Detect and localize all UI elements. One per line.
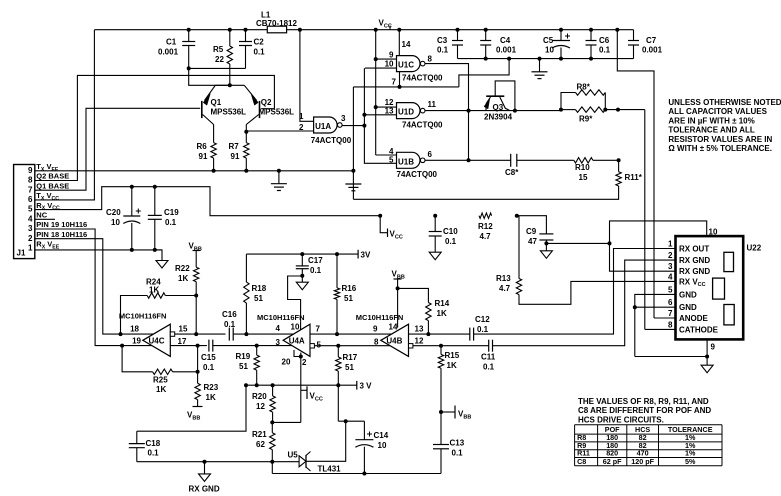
power VBB below R23	[187, 407, 203, 422]
svg-text:91: 91	[231, 152, 240, 161]
svg-text:C2: C2	[254, 38, 265, 47]
wire U5 cathode up	[306, 419, 348, 461]
resistor R13	[496, 216, 522, 295]
wire TX VEE rail	[35, 170, 354, 172]
capacitor C20	[106, 185, 141, 252]
svg-text:3: 3	[668, 262, 673, 271]
svg-text:C19: C19	[164, 208, 179, 217]
wire J1 pin 8 Q2 base	[35, 75, 275, 180]
wire VCC top rail right of L1	[287, 29, 634, 31]
svg-text:C16: C16	[222, 310, 237, 319]
wire U22 pin 8 cathode	[645, 328, 676, 330]
wire J1 pin 6 TX VCC riser	[35, 30, 95, 200]
svg-text:1K: 1K	[178, 274, 188, 283]
svg-text:R6: R6	[197, 142, 208, 151]
wire U1A output pin 3	[343, 124, 367, 128]
svg-text:Q3: Q3	[493, 103, 504, 112]
svg-text:6: 6	[28, 195, 33, 204]
svg-text:8: 8	[668, 320, 673, 329]
wire U4B pin 12 line	[413, 345, 489, 347]
resistor R15	[438, 344, 459, 445]
inductor L1	[256, 11, 297, 33]
wire U1C output pin 8	[425, 64, 468, 161]
svg-text:0.001: 0.001	[158, 48, 179, 57]
svg-text:7: 7	[28, 185, 33, 194]
svg-text:R8*: R8*	[577, 83, 591, 92]
svg-text:1K: 1K	[437, 309, 447, 318]
wire VCC top rail left of L1	[94, 29, 267, 31]
svg-text:R10: R10	[575, 163, 590, 172]
power VCC tick middle	[378, 214, 403, 241]
svg-text:74ACTQ00: 74ACTQ00	[397, 170, 438, 179]
svg-text:RX OUT: RX OUT	[679, 245, 709, 254]
svg-text:U22: U22	[747, 244, 762, 253]
resistor R10	[574, 158, 621, 182]
svg-text:10: 10	[545, 46, 554, 55]
wire R22 R24 to U4C pin 15	[194, 296, 198, 337]
svg-text:GND: GND	[679, 290, 697, 299]
svg-text:C12: C12	[475, 315, 490, 324]
svg-text:62 pF: 62 pF	[603, 457, 622, 466]
resistor R9	[559, 107, 607, 124]
svg-text:8: 8	[428, 55, 433, 64]
wire U4B pin 13 line	[409, 333, 470, 335]
svg-text:19: 19	[132, 337, 141, 346]
wire U4A pin 2 20 to VCC	[294, 350, 307, 422]
svg-text:C5: C5	[543, 36, 554, 45]
wire U4A pin 5 to U4B pin 8	[314, 345, 389, 347]
wire R13 to U22 pin 4	[519, 281, 676, 304]
svg-text:3: 3	[28, 224, 33, 233]
svg-text:Q1: Q1	[211, 98, 222, 107]
svg-text:PIN 18 10H116: PIN 18 10H116	[36, 230, 87, 239]
svg-text:RX GND: RX GND	[189, 485, 220, 494]
svg-text:ARE IN µF WITH ± 10%: ARE IN µF WITH ± 10%	[668, 116, 754, 125]
ground on V1	[345, 183, 361, 185]
capacitor C6	[586, 28, 611, 61]
svg-text:22: 22	[215, 55, 224, 64]
svg-text:C20: C20	[106, 208, 121, 217]
svg-text:2: 2	[302, 358, 307, 367]
svg-text:0.1: 0.1	[483, 363, 495, 372]
svg-text:9: 9	[28, 166, 33, 175]
wire U1C pin 7 ground	[353, 57, 511, 89]
svg-text:0.1: 0.1	[437, 46, 449, 55]
svg-text:U5: U5	[288, 451, 299, 460]
wire bottom rail to C13	[272, 462, 441, 474]
svg-text:C11: C11	[481, 353, 496, 362]
capacitor C16	[222, 310, 237, 341]
transistor Q2	[244, 85, 294, 124]
svg-text:C1: C1	[166, 38, 177, 47]
amplifier U4C	[119, 312, 188, 357]
ground under Q1 Q2	[271, 169, 287, 191]
resistor R21	[252, 422, 275, 461]
svg-text:R23: R23	[204, 383, 219, 392]
svg-text:51: 51	[344, 294, 353, 303]
svg-text:10: 10	[709, 228, 718, 237]
svg-text:0.1: 0.1	[203, 363, 215, 372]
svg-text:11: 11	[428, 100, 437, 109]
svg-text:R13: R13	[496, 274, 511, 283]
ground arrow C17	[296, 276, 308, 290]
svg-text:C10: C10	[443, 227, 458, 236]
svg-text:R11*: R11*	[625, 173, 643, 182]
svg-text:4: 4	[28, 214, 33, 223]
resistor R25 feedback	[122, 346, 198, 394]
power 3V tick bottom	[357, 381, 372, 391]
svg-text:0.1: 0.1	[452, 449, 464, 458]
svg-text:1K: 1K	[206, 393, 216, 402]
svg-text:2: 2	[28, 234, 33, 243]
svg-text:0.001: 0.001	[496, 46, 517, 55]
svg-text:Ω WITH ± 5% TOLERANCE.: Ω WITH ± 5% TOLERANCE.	[668, 144, 772, 153]
svg-text:R5: R5	[213, 45, 224, 54]
wire J1 pin 5 RX VCC	[35, 187, 380, 216]
svg-text:15: 15	[579, 173, 588, 182]
capacitor C13	[433, 439, 465, 474]
svg-text:C14: C14	[374, 431, 389, 440]
svg-text:0.1: 0.1	[477, 325, 489, 334]
resistor R5	[213, 28, 233, 86]
wire C17 to U4A pin 10	[288, 276, 303, 321]
svg-text:14: 14	[389, 323, 398, 332]
svg-text:0.1: 0.1	[310, 266, 322, 275]
wire U4C pin 18 input	[119, 332, 154, 336]
capacitor C15	[201, 340, 216, 372]
svg-text:MPS536L: MPS536L	[211, 108, 247, 117]
svg-text:0.1: 0.1	[445, 237, 457, 246]
svg-text:UNLESS OTHERWISE NOTED:: UNLESS OTHERWISE NOTED:	[668, 98, 781, 107]
svg-text:3: 3	[276, 338, 281, 347]
svg-text:C15: C15	[201, 353, 216, 362]
connector U22	[676, 236, 762, 339]
svg-text:20: 20	[282, 358, 291, 367]
svg-text:C9: C9	[526, 227, 537, 236]
svg-text:C18: C18	[146, 439, 161, 448]
capacitor C2	[239, 28, 265, 69]
resistor R16	[334, 252, 356, 336]
svg-text:0.1: 0.1	[599, 46, 611, 55]
power 3V tick top	[358, 250, 371, 260]
svg-text:3 V: 3 V	[360, 382, 373, 391]
svg-text:9: 9	[389, 51, 394, 60]
svg-text:1K: 1K	[156, 385, 166, 394]
wire C1 bottom to emitter node	[189, 68, 230, 85]
wire C11 to U22 pin 2	[493, 260, 676, 346]
svg-text:13: 13	[415, 325, 424, 334]
svg-text:10: 10	[385, 60, 394, 69]
capacitor C7	[628, 30, 663, 59]
svg-text:74ACTQ00: 74ACTQ00	[402, 73, 443, 82]
capacitor C14	[355, 421, 388, 475]
svg-text:R21: R21	[252, 430, 267, 439]
svg-text:9: 9	[711, 343, 716, 352]
svg-text:10: 10	[291, 323, 300, 332]
wire input net B from VCC	[374, 28, 397, 155]
ground arrow C9	[540, 243, 552, 258]
resistor R14	[398, 288, 450, 336]
wire U4C pin 17 line	[170, 344, 207, 348]
svg-text:4: 4	[668, 272, 673, 281]
svg-text:R18: R18	[252, 284, 267, 293]
wire U4C pin 19 input	[120, 344, 152, 348]
wire J1 pin 2 to U4C pin 18	[35, 239, 121, 334]
svg-text:U1A: U1A	[315, 122, 331, 131]
svg-text:MC10H116FN: MC10H116FN	[356, 313, 404, 322]
svg-text:TL431: TL431	[318, 465, 342, 474]
wire U1A pin 1 from VCC rail	[298, 28, 314, 122]
svg-text:7: 7	[392, 78, 397, 87]
wire U4A pin 7 to U4B pin 9	[310, 333, 391, 335]
svg-text:6: 6	[428, 150, 433, 159]
svg-text:C17: C17	[308, 256, 323, 265]
gate U1B	[389, 147, 437, 179]
svg-text:R15: R15	[445, 351, 460, 360]
wire U1B output pin 6	[425, 159, 510, 161]
power VBB above U4B	[392, 270, 405, 328]
svg-text:5: 5	[389, 155, 394, 164]
svg-text:1K: 1K	[447, 361, 457, 370]
svg-text:R9*: R9*	[579, 115, 593, 124]
capacitor C4	[480, 28, 516, 61]
svg-text:HCS DRIVE CIRCUITS.: HCS DRIVE CIRCUITS.	[578, 415, 664, 424]
wire R11 bottom ground loop	[353, 186, 618, 199]
ground arrow C19 C20	[155, 250, 168, 268]
svg-text:R19: R19	[236, 352, 251, 361]
capacitor C8*	[505, 154, 519, 177]
svg-text:0.1: 0.1	[224, 320, 236, 329]
svg-text:U1B: U1B	[398, 157, 414, 166]
resistor R20	[252, 385, 275, 424]
svg-text:J1: J1	[17, 249, 26, 258]
svg-text:51: 51	[345, 363, 354, 372]
capacitor C19	[148, 185, 179, 252]
wire C15 to U4A pin 3	[213, 345, 292, 347]
wire J1 pin 7 Q1 base	[35, 108, 200, 190]
wire feedback net A	[362, 68, 396, 163]
svg-text:2: 2	[299, 123, 304, 132]
svg-text:PIN 19 10H116: PIN 19 10H116	[36, 220, 87, 229]
wire U22 pin 7 anode	[654, 317, 676, 319]
svg-text:51: 51	[254, 294, 263, 303]
svg-text:0.1: 0.1	[165, 218, 177, 227]
capacitor C17	[296, 252, 323, 278]
transistor Q1	[202, 85, 246, 124]
wire C1-C2 bottom link	[189, 67, 246, 69]
resistor R7	[229, 125, 250, 173]
svg-text:R25: R25	[153, 376, 168, 385]
connector J1	[14, 165, 35, 259]
wire U1D output pin 11	[425, 110, 561, 112]
svg-text:2N3904: 2N3904	[484, 113, 513, 122]
resistor R18	[244, 254, 267, 334]
resistor R11	[616, 160, 643, 186]
wire C9 ground to U22 pins	[546, 241, 611, 245]
wire cathode drop	[644, 110, 646, 330]
capacitor C1	[158, 28, 195, 69]
amplifier U4B	[356, 313, 424, 357]
amplifier U4A	[257, 313, 322, 367]
svg-text:U4C: U4C	[149, 337, 165, 346]
wire U4A pin 10 stub	[300, 321, 302, 330]
wire C16 to U4A pin 4	[233, 332, 293, 336]
svg-text:2: 2	[668, 251, 673, 260]
power VCC label top	[379, 19, 392, 30]
capacitor C18	[129, 431, 161, 462]
note unless otherwise noted	[668, 98, 781, 153]
svg-text:0.1: 0.1	[254, 48, 266, 57]
transistor Q3	[484, 81, 517, 122]
svg-text:5%: 5%	[685, 457, 696, 466]
svg-text:ANODE: ANODE	[679, 314, 709, 323]
svg-text:R22: R22	[175, 264, 190, 273]
wire C8 to R10	[517, 159, 574, 161]
svg-text:8: 8	[374, 338, 379, 347]
svg-text:MC10H116FN: MC10H116FN	[257, 313, 305, 322]
resistor R24 feedback	[121, 278, 199, 335]
svg-text:U4B: U4B	[386, 337, 402, 346]
resistor R8	[561, 83, 605, 110]
svg-text:C13: C13	[450, 439, 465, 448]
power VBB tick at R15	[441, 406, 471, 421]
wire U22 pin 9 ground	[635, 339, 713, 372]
note POF HCS values	[578, 397, 711, 424]
wire R17 bottom to C14	[338, 420, 364, 422]
svg-text:R7: R7	[229, 142, 240, 151]
capacitor C11	[481, 340, 496, 372]
wire RX GND rail	[137, 460, 299, 464]
wire U4C pin 15 line	[175, 333, 226, 335]
svg-text:U1D: U1D	[398, 108, 414, 117]
diode U5 TL431	[288, 451, 342, 474]
svg-text:12: 12	[256, 402, 265, 411]
node U1 outputs bus	[467, 109, 471, 163]
svg-text:R14: R14	[435, 299, 450, 308]
svg-text:9: 9	[373, 325, 378, 334]
capacitor C12	[470, 315, 490, 341]
wire U22 pin 6	[633, 305, 676, 309]
svg-text:THE VALUES OF R8, R9, R11, AND: THE VALUES OF R8, R9, R11, AND	[578, 397, 709, 406]
svg-text:C8 ARE DIFFERENT FOR POF AND: C8 ARE DIFFERENT FOR POF AND	[578, 406, 711, 415]
table POF HCS tolerance	[575, 425, 722, 466]
svg-text:5: 5	[668, 285, 673, 294]
gate U1C	[385, 40, 443, 87]
svg-text:1: 1	[668, 240, 673, 249]
svg-text:U4A: U4A	[289, 337, 305, 346]
svg-text:18: 18	[130, 325, 139, 334]
svg-text:4: 4	[276, 324, 281, 333]
svg-text:RX GND: RX GND	[679, 267, 710, 276]
labels J1 pins	[36, 162, 87, 250]
wire U1D pin 13 to net A	[364, 114, 396, 116]
svg-text:47: 47	[528, 237, 537, 246]
svg-text:3V: 3V	[361, 251, 371, 260]
power VCC tick at U4A	[307, 386, 323, 402]
node C1 bottom junction	[187, 66, 191, 70]
svg-text:10: 10	[378, 441, 387, 450]
node common emitter	[215, 83, 244, 87]
svg-text:NC: NC	[36, 211, 47, 220]
resistor R17	[336, 344, 358, 422]
svg-text:R12: R12	[478, 222, 493, 231]
svg-text:C4: C4	[500, 36, 511, 45]
svg-text:10: 10	[111, 218, 120, 227]
wire 3V rail bottom	[244, 383, 357, 387]
wire R9 node to cathode drop	[605, 108, 645, 112]
svg-text:0.001: 0.001	[642, 46, 663, 55]
svg-text:0.1: 0.1	[148, 449, 160, 458]
wire U22 pin 5	[635, 294, 676, 356]
svg-text:GND: GND	[679, 303, 697, 312]
ground arrow RX GND	[189, 462, 220, 494]
resistor R22	[175, 251, 199, 296]
svg-text:3: 3	[341, 114, 346, 123]
svg-text:U1C: U1C	[398, 61, 414, 70]
svg-text:13: 13	[385, 106, 394, 115]
svg-text:Q2: Q2	[261, 98, 272, 107]
capacitor C5	[543, 28, 570, 61]
wire R20 R21 junction to VCC tick	[272, 421, 301, 423]
resistor R19	[236, 344, 260, 386]
svg-text:7: 7	[316, 325, 321, 334]
wire C12 to U22 pin 1	[474, 249, 676, 335]
capacitor C9	[515, 214, 554, 246]
svg-text:51: 51	[239, 362, 248, 371]
wire U22 pin 10	[610, 221, 707, 244]
svg-text:1: 1	[28, 244, 33, 253]
svg-text:R20: R20	[252, 392, 267, 401]
wire capacitor ground rail	[458, 58, 634, 60]
capacitor C3	[437, 28, 463, 59]
svg-text:1K: 1K	[149, 286, 159, 295]
svg-text:CATHODE: CATHODE	[679, 325, 719, 334]
wire J1 pin 4 NC stub	[35, 218, 55, 220]
svg-text:R16: R16	[342, 284, 357, 293]
wire J1 pin 3 to U4C pin 19	[35, 229, 122, 346]
svg-text:TOLERANCE AND ALL: TOLERANCE AND ALL	[668, 126, 754, 135]
svg-text:ALL CAPACITOR VALUES: ALL CAPACITOR VALUES	[668, 107, 767, 116]
wire ground vertical V1	[351, 87, 355, 199]
svg-text:14: 14	[402, 40, 411, 49]
wire Q2 collector to U1A input 2	[246, 130, 313, 132]
svg-text:6: 6	[668, 298, 673, 307]
resistor R12	[478, 213, 493, 241]
wire C18 riser	[137, 385, 246, 431]
svg-text:74ACTQ00: 74ACTQ00	[402, 120, 443, 129]
svg-text:C8: C8	[577, 457, 586, 466]
svg-text:CB70-1812: CB70-1812	[256, 19, 297, 28]
svg-text:120 pF: 120 pF	[631, 457, 654, 466]
capacitor C10	[429, 214, 459, 260]
svg-text:62: 62	[256, 440, 265, 449]
wire U1C pin 14 to VCC rail	[397, 28, 401, 56]
svg-text:C8*: C8*	[505, 168, 519, 177]
svg-text:MC10H116FN: MC10H116FN	[119, 312, 167, 321]
power VBB label above R22	[189, 242, 202, 253]
wire VCC to anode drop	[615, 28, 654, 318]
svg-text:15: 15	[179, 325, 188, 334]
svg-text:Q1 BASE: Q1 BASE	[36, 181, 69, 190]
gate U1D	[385, 98, 443, 130]
svg-text:C6: C6	[599, 36, 610, 45]
gate U1A	[299, 112, 352, 145]
svg-text:C3: C3	[437, 36, 448, 45]
svg-text:RESISTOR VALUES ARE IN: RESISTOR VALUES ARE IN	[668, 135, 772, 144]
svg-text:7: 7	[668, 309, 673, 318]
svg-text:R17: R17	[343, 353, 358, 362]
svg-text:91: 91	[199, 152, 208, 161]
